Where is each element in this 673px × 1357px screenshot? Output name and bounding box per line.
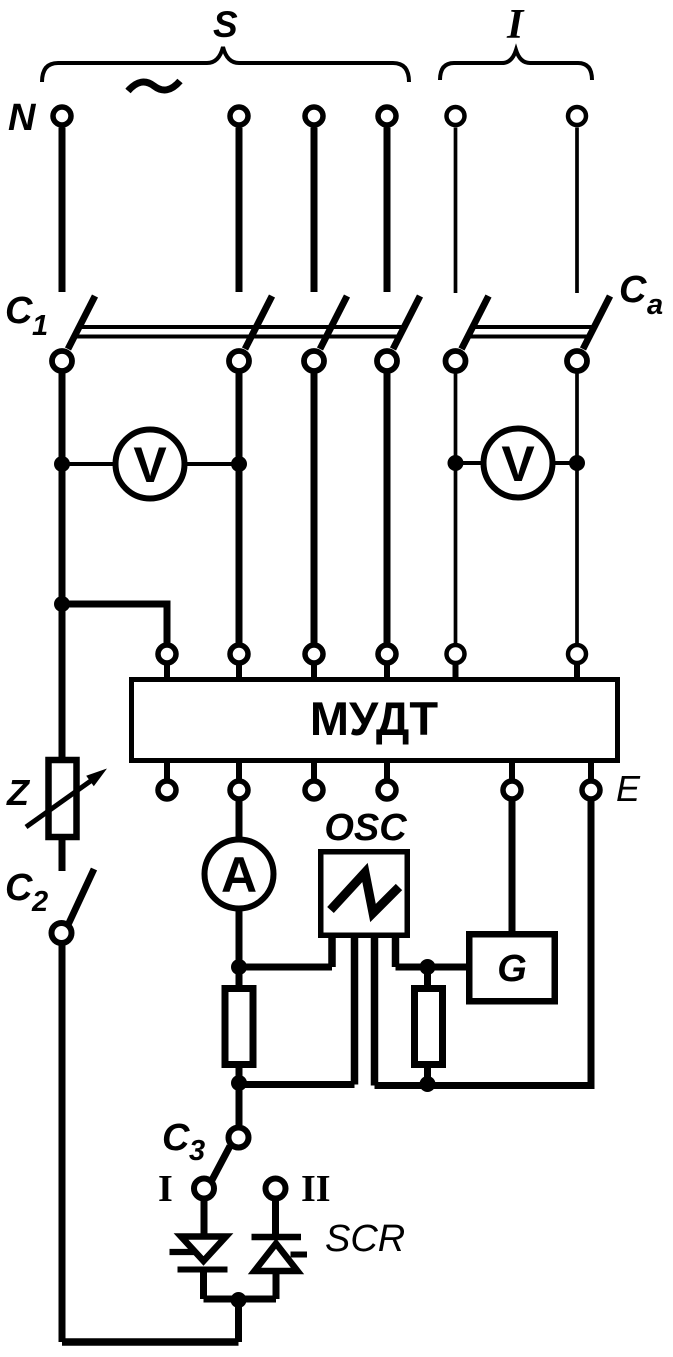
svg-text:G: G xyxy=(497,948,527,990)
svg-text:SCR: SCR xyxy=(325,1218,405,1260)
svg-text:a: a xyxy=(647,289,663,321)
svg-text:I: I xyxy=(506,2,525,48)
svg-text:2: 2 xyxy=(31,886,48,918)
svg-text:C: C xyxy=(5,867,33,909)
svg-text:E: E xyxy=(616,768,641,809)
svg-text:C: C xyxy=(619,269,647,311)
svg-text:S: S xyxy=(213,4,238,45)
svg-text:C: C xyxy=(162,1117,190,1159)
svg-text:I: I xyxy=(158,1168,173,1210)
svg-text:3: 3 xyxy=(189,1135,205,1167)
svg-text:V: V xyxy=(501,436,535,492)
svg-text:V: V xyxy=(133,437,167,493)
svg-text:OSC: OSC xyxy=(324,807,407,849)
svg-text:1: 1 xyxy=(32,310,48,342)
svg-text:A: A xyxy=(221,847,257,903)
svg-text:МУДТ: МУДТ xyxy=(310,692,438,745)
svg-text:Z: Z xyxy=(6,772,31,813)
svg-text:II: II xyxy=(301,1168,331,1210)
svg-text:C: C xyxy=(5,290,33,332)
svg-text:N: N xyxy=(8,97,37,139)
